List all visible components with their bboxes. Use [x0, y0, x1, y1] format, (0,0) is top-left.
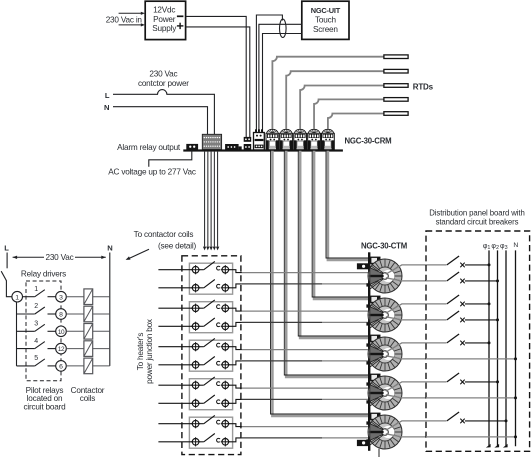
CU3 pole 1 terminal left — [191, 342, 200, 351]
svg-text:N: N — [513, 242, 518, 249]
circuit breaker CB2 — [426, 280, 447, 282]
alarm relay connector J1 — [186, 144, 198, 150]
CU3 output jog lower — [229, 361, 242, 365]
pilot relay 1 wire mid — [48, 296, 56, 298]
svg-text:1: 1 — [34, 286, 38, 293]
CU3 pole 1 terminal right — [221, 342, 230, 351]
wire CRM to TS1 lower — [263, 34, 302, 134]
bus p3 vertical — [505, 250, 507, 446]
contactor cabinet dashed box — [182, 256, 241, 455]
bus end tick — [503, 444, 508, 448]
wire CU3 neutral to CT3 — [242, 360, 322, 362]
cable module M5 to CT1 — [328, 151, 370, 260]
svg-text:power junction box: power junction box — [145, 319, 154, 384]
svg-text:NGC-30-CTM: NGC-30-CTM — [361, 241, 407, 250]
wire CU3 line to CT3 — [242, 349, 380, 351]
coil control wire 4 — [213, 152, 215, 247]
CU2 pole 1 wire in — [158, 307, 192, 309]
CU5 pole 2 blade — [199, 441, 204, 443]
CU5 pole 1 wire in — [158, 423, 192, 425]
svg-text:Power: Power — [153, 15, 176, 24]
CU5 output jog lower — [229, 438, 242, 442]
RTD input module M5 — [322, 129, 334, 133]
CU3 pole 2 terminal left — [191, 360, 200, 369]
coil control wire 3 — [210, 152, 212, 247]
wire CU1 line to CT1 — [242, 272, 380, 274]
svg-text:φ2: φ2 — [491, 243, 499, 251]
svg-text:5: 5 — [34, 355, 38, 362]
svg-text:(see detail): (see detail) — [158, 241, 197, 250]
contactor unit CU5 box — [189, 417, 232, 448]
wire CU5 line to CT5 — [242, 426, 380, 428]
CT5 load wire out — [386, 421, 447, 430]
CT3 wire fan — [370, 341, 385, 367]
circuit breaker CB7 — [0, 0, 1, 1]
CT3 sense connector — [370, 335, 381, 342]
svg-text:Supply: Supply — [152, 24, 177, 33]
wire L with loop — [113, 90, 214, 135]
coil control wire 1 — [204, 152, 206, 247]
CU5 pole 1 blade — [199, 423, 204, 425]
contactor coil K2 — [84, 306, 93, 322]
CT2 wire fan — [370, 302, 385, 328]
touch screen connector J5 — [255, 129, 257, 132]
arrow 230 Vac in upper — [119, 12, 142, 14]
relay drivers dashed box — [26, 281, 61, 381]
svg-text:3: 3 — [59, 294, 63, 301]
svg-text:8: 8 — [59, 312, 63, 319]
wire terminal 3 to coil — [66, 296, 84, 298]
svg-text:RTDs: RTDs — [413, 83, 434, 92]
wire RTD4 to module — [314, 99, 384, 128]
CU1 pole 2 wire in — [158, 287, 192, 289]
wire CU1 neutral to CT1 — [242, 283, 322, 285]
pilot relay 2 wire mid — [48, 313, 56, 315]
wire terminal 6 to coil — [66, 365, 84, 367]
CU5 pole 2 contact hook — [217, 438, 220, 442]
contactor coil K3 — [84, 324, 93, 340]
pilot relay 3 switch — [35, 324, 45, 331]
svg-text:standard circuit breakers: standard circuit breakers — [436, 218, 519, 227]
circuit breaker CB5 — [0, 0, 1, 1]
svg-text:To heater's: To heater's — [136, 333, 145, 371]
CU2 output jog lower — [229, 322, 242, 326]
svg-text:coils: coils — [80, 394, 95, 403]
CT4 sense connector — [370, 374, 381, 381]
CT4 return wire out — [386, 395, 426, 398]
CU3 pole 2 contact hook — [217, 361, 220, 365]
svg-text:AC voltage up to 277 Vac: AC voltage up to 277 Vac — [108, 168, 196, 177]
CT2 return wire out — [386, 317, 426, 320]
svg-text:NGC-UIT: NGC-UIT — [311, 6, 341, 15]
CU2 pole 2 wire in — [158, 325, 192, 327]
distribution panel dashed box — [426, 231, 530, 451]
RTD sensor RTD2 — [384, 69, 408, 73]
wire RTD1 to module — [272, 57, 384, 129]
CU4 pole 1 terminal left — [191, 381, 200, 390]
pilot relay 5 switch — [35, 359, 45, 366]
CU2 pole 1 terminal left — [191, 304, 200, 313]
coil control wire 2 — [207, 152, 209, 247]
terminal 1 circle — [12, 291, 23, 302]
CT3 return wire out — [386, 356, 426, 359]
coil control wire 5 — [217, 152, 219, 247]
terminal 8 circle — [56, 309, 67, 320]
CU2 output jog upper — [229, 308, 242, 311]
RTD sensor RTD5 — [384, 112, 408, 116]
current transformer CT1 — [368, 259, 402, 293]
CU1 pole 1 terminal right — [221, 265, 230, 274]
connector J3 — [225, 144, 239, 150]
circuit breaker CB4 — [426, 319, 447, 321]
contactor coil K4 — [84, 341, 93, 357]
label To heater's power junction box — [136, 319, 154, 384]
wire terminal 12 to coil — [66, 348, 84, 350]
wire coil K1 to N — [93, 296, 110, 298]
CU2 pole 1 terminal right — [221, 304, 230, 313]
CT2 primary conductor — [382, 312, 389, 319]
PS1 minus terminal — [177, 15, 184, 17]
CT3 primary conductor — [382, 351, 389, 358]
CU3 pole 2 terminal right — [221, 360, 230, 369]
wire terminal 10 to coil — [66, 330, 84, 332]
CT2 sense connector — [370, 296, 381, 303]
svg-text:NGC-30-CRM: NGC-30-CRM — [345, 137, 392, 146]
CU1 pole 2 terminal left — [191, 283, 200, 292]
CT2 load wire out — [386, 304, 447, 313]
CT4 load wire out — [386, 382, 447, 391]
CU2 pole 2 terminal left — [191, 322, 200, 331]
wire to pilot common — [6, 280, 11, 296]
CU4 pole 1 blade — [199, 384, 204, 386]
RTD input module M3 — [294, 129, 306, 133]
contactor unit CU3 box — [189, 340, 232, 371]
CT3 bus clamps — [366, 343, 369, 346]
pilot relay 4 wire in — [17, 348, 35, 350]
CU3 pole 1 wire in — [158, 346, 192, 348]
CT4 wire fan — [370, 380, 385, 406]
svg-text:1: 1 — [15, 294, 19, 301]
wire CU5 neutral to CT5 — [242, 437, 322, 439]
CU4 pole 2 terminal right — [221, 399, 230, 408]
CU1 output jog upper — [229, 270, 242, 273]
CU4 output jog lower — [229, 399, 242, 403]
wire alarm relay output — [149, 150, 192, 167]
terminal 6 circle — [56, 361, 67, 372]
disconnect switch blade — [1, 271, 6, 280]
contactor unit CU4 box — [189, 379, 232, 410]
terminal 12 circle — [56, 343, 67, 354]
CT5 sense connector — [370, 413, 381, 420]
PS1 plus terminal — [177, 25, 184, 27]
svg-text:3: 3 — [34, 321, 38, 328]
wire pilot common rail — [16, 302, 18, 366]
wire terminal 8 to coil — [66, 313, 84, 315]
CU4 pole 2 contact hook — [217, 400, 220, 404]
contactor coil K5 — [84, 358, 93, 374]
wire RTD3 to module — [300, 86, 384, 129]
contactor coil K1 — [84, 289, 93, 305]
CU4 pole 2 blade — [199, 402, 204, 404]
bus p2 vertical — [497, 250, 499, 446]
CU5 output jog upper — [229, 424, 242, 427]
pilot relay 2 switch — [35, 307, 45, 314]
CU4 pole 1 terminal right — [221, 381, 230, 390]
CU5 pole 1 terminal right — [221, 419, 230, 428]
CT1 load wire out — [386, 265, 447, 274]
RTD input module M1 — [267, 129, 279, 133]
svg-text:N: N — [107, 244, 112, 253]
CU5 pole 2 terminal right — [221, 437, 230, 446]
neutral wire circuit 5 — [426, 436, 516, 438]
CU3 pole 2 wire in — [158, 364, 192, 366]
CU1 output jog lower — [229, 284, 242, 288]
CTM bottom terminal — [357, 440, 369, 446]
svg-text:N: N — [104, 103, 109, 112]
CU4 pole 1 wire in — [158, 384, 192, 386]
neutral wire circuit 3 — [426, 358, 516, 360]
controller NGC-30-CRM board edge — [183, 149, 343, 151]
wire N rail — [109, 253, 111, 366]
CT5 primary conductor — [382, 429, 389, 436]
wire CU2 line to CT2 — [242, 310, 380, 312]
arrow 230 Vac in lower — [119, 24, 142, 26]
cable module M1 to CT5 — [272, 151, 370, 416]
neutral wire circuit 4 — [426, 397, 516, 399]
CU4 pole 2 terminal left — [191, 399, 200, 408]
CU1 pole 1 contact hook — [217, 266, 220, 270]
svg-text:230 Vac: 230 Vac — [45, 253, 73, 262]
CU2 pole 2 blade — [199, 325, 204, 327]
svg-text:2: 2 — [34, 303, 38, 310]
svg-text:L: L — [4, 244, 9, 253]
svg-text:φ3: φ3 — [500, 243, 508, 251]
CU1 pole 2 contact hook — [217, 284, 220, 288]
wire PS1 minus to CRM — [186, 16, 246, 137]
CTM top terminal — [357, 263, 369, 269]
CU3 output jog upper — [229, 347, 242, 350]
bus end tick — [486, 444, 491, 448]
bus n vertical — [515, 250, 517, 446]
svg-text:To contactor coils: To contactor coils — [134, 230, 194, 239]
CU5 pole 2 terminal left — [191, 437, 200, 446]
pilot relay 5 wire in — [17, 365, 35, 367]
CU2 pole 2 contact hook — [217, 323, 220, 327]
CT5 wire fan — [370, 419, 385, 445]
svg-text:6: 6 — [59, 364, 63, 371]
cable module M2 to CT4 — [286, 151, 370, 377]
CT5 return wire out — [386, 434, 426, 437]
RTD sensor RTD1 — [384, 55, 408, 59]
current transformer CT3 — [368, 337, 402, 371]
CU3 pole 1 blade — [199, 346, 204, 348]
CT1 primary conductor — [382, 273, 389, 280]
wire L drop — [6, 253, 8, 269]
svg-text:circuit board: circuit board — [24, 403, 67, 412]
contactor unit CU1 box — [189, 263, 232, 294]
circuit breaker CB6 — [0, 0, 1, 1]
power supply PS1 box — [145, 1, 185, 39]
CU4 pole 2 wire in — [158, 402, 192, 404]
wire CRM to TS1 upper — [259, 24, 302, 133]
CU1 pole 1 wire in — [158, 269, 192, 271]
current transformer bus bar — [368, 252, 370, 450]
CU1 pole 2 blade — [199, 287, 204, 289]
svg-text:φ1: φ1 — [483, 243, 491, 251]
terminal 10 circle — [56, 326, 67, 337]
touch screen TS1 box — [302, 1, 349, 39]
RTD sensor RTD3 — [384, 84, 408, 88]
pilot relay 3 wire mid — [48, 330, 56, 332]
CT5 bus clamps — [366, 421, 369, 424]
CT1 wire fan — [370, 263, 385, 289]
CU1 pole 1 blade — [199, 269, 204, 271]
arrow to detail — [128, 249, 149, 258]
pilot relay 1 wire in — [23, 296, 35, 298]
RTD sensor RTD4 — [384, 98, 408, 102]
RTD input module M4 — [308, 129, 320, 133]
wire coil K3 to N — [93, 330, 110, 332]
bus end tick — [494, 444, 499, 448]
CU1 pole 1 terminal left — [191, 265, 200, 274]
svg-text:contctor power: contctor power — [138, 79, 189, 88]
svg-text:10: 10 — [58, 329, 65, 336]
pilot relay 3 wire in — [17, 330, 35, 332]
svg-text:Distribution panel board with: Distribution panel board with — [429, 208, 524, 217]
wire RTD2 to module — [286, 71, 384, 129]
CT1 sense connector — [370, 257, 381, 264]
svg-text:4: 4 — [34, 338, 38, 345]
power terminal block J2 — [202, 134, 221, 149]
CT2 bus clamps — [366, 304, 369, 307]
wire coil K4 to N — [93, 348, 110, 350]
svg-text:Relay drivers: Relay drivers — [21, 270, 66, 279]
CU2 pole 1 contact hook — [217, 305, 220, 309]
wire below CT5 — [378, 449, 380, 457]
wire coil K5 to N — [93, 365, 110, 367]
pilot relay 5 wire mid — [48, 365, 56, 367]
pilot relay 4 wire mid — [48, 348, 56, 350]
CT1 bus clamps — [366, 265, 369, 268]
terminal 3 circle — [56, 291, 67, 302]
wire RTD5 to module — [328, 114, 384, 129]
CT4 primary conductor — [382, 390, 389, 397]
wire CU4 line to CT4 — [242, 387, 380, 389]
svg-text:230 Vac in: 230 Vac in — [106, 15, 143, 24]
svg-text:12: 12 — [58, 346, 65, 353]
svg-text:Screen: Screen — [313, 25, 338, 34]
wire coil K2 to N — [93, 313, 110, 315]
cable module M3 to CT3 — [300, 151, 370, 338]
svg-text:230 Vac: 230 Vac — [149, 70, 177, 79]
CU3 pole 1 contact hook — [217, 343, 220, 347]
pilot relay 1 switch — [35, 290, 45, 297]
pilot relay 2 wire in — [17, 313, 35, 315]
CT4 bus clamps — [366, 382, 369, 385]
bus p1 vertical — [488, 250, 490, 446]
power input connector J4 — [244, 137, 252, 142]
CU5 pole 2 wire in — [158, 441, 192, 443]
wire CU2 neutral to CT2 — [242, 321, 322, 323]
CU5 pole 1 contact hook — [217, 420, 220, 424]
RTD input module M2 — [280, 129, 292, 133]
current transformer CT4 — [368, 376, 402, 410]
CU4 pole 1 contact hook — [217, 382, 220, 386]
CU1 pole 2 terminal right — [221, 283, 230, 292]
CT1 return wire out — [386, 278, 426, 281]
contactor unit CU2 box — [189, 302, 232, 333]
svg-text:Alarm relay output: Alarm relay output — [117, 143, 181, 152]
cable coil loop — [280, 19, 287, 37]
wire CRM to cable loop — [256, 15, 282, 133]
svg-text:L: L — [105, 91, 110, 100]
cable module M4 to CT2 — [314, 151, 370, 299]
pilot relay 4 switch — [35, 342, 45, 349]
svg-text:12Vdc: 12Vdc — [153, 6, 175, 15]
CT3 load wire out — [386, 343, 447, 352]
wire PS1 plus to CRM — [186, 27, 250, 138]
CU2 pole 1 blade — [199, 307, 204, 309]
wire CU4 neutral to CT4 — [242, 398, 322, 400]
dimension arrow 230 Vac — [13, 256, 106, 258]
current transformer CT5 — [368, 415, 402, 449]
CU2 pole 2 terminal right — [221, 322, 230, 331]
svg-text:Touch: Touch — [315, 16, 336, 25]
circuit breaker CB3 — [0, 0, 1, 1]
CU5 pole 1 terminal left — [191, 419, 200, 428]
circuit breaker CB1 — [0, 0, 1, 1]
wire N — [113, 107, 208, 135]
current transformer CT2 — [368, 298, 402, 332]
CU4 output jog upper — [229, 385, 242, 388]
CU3 pole 2 blade — [199, 364, 204, 366]
